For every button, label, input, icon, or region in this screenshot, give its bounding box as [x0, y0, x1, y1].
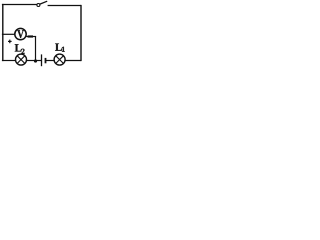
label L1 — [55, 44, 62, 51]
voltmeter V — [15, 28, 26, 39]
wire top left segment — [2, 4, 37, 6]
wire battery to lamp L1 — [46, 60, 55, 62]
switch (open) — [37, 1, 47, 6]
wire voltmeter drop (vertical) — [35, 36, 37, 61]
label L2 — [15, 44, 22, 51]
battery cell: short plate (negative) — [45, 58, 47, 63]
wire bottom right segment — [65, 60, 81, 62]
battery cell: long plate (positive) — [41, 54, 43, 66]
wire lamp L2 to junction — [26, 60, 35, 62]
plus polarity mark — [8, 40, 12, 44]
minus polarity mark — [28, 35, 33, 37]
wire battery to junction — [36, 60, 42, 62]
lamp L1 — [54, 54, 65, 65]
junction node — [34, 59, 37, 62]
wire left rail to lamp L2 — [2, 60, 16, 62]
wire left rail — [2, 4, 4, 61]
lamp L2 — [16, 54, 27, 65]
wire voltmeter right lead — [26, 36, 36, 38]
wire top right segment — [48, 5, 82, 7]
wire voltmeter left lead — [2, 33, 15, 35]
wire right rail — [80, 5, 82, 61]
